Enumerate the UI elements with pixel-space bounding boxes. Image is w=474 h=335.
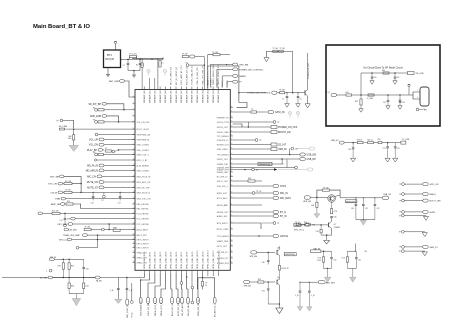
net flag USB_30: [233, 147, 315, 151]
svg-text:PC1_KEYIN3: PC1_KEYIN3: [137, 219, 150, 221]
svg-text:MIC_N1_INPUT_BT: MIC_N1_INPUT_BT: [176, 66, 178, 85]
BT module U/BT1 box: [104, 50, 121, 68]
svg-text:20: 20: [133, 202, 135, 204]
ground below BT1: [106, 68, 110, 77]
svg-text:MC_MM: MC_MM: [40, 278, 48, 280]
svg-text:R42: R42: [355, 101, 358, 103]
net flag PY_M row: [38, 211, 135, 215]
bottom routed flags group2: [171, 273, 200, 316]
net flag VOL_DN: [89, 143, 135, 146]
svg-text:49: 49: [231, 147, 233, 149]
svg-text:SPKL_LINE_OUT3: SPKL_LINE_OUT3: [160, 251, 162, 269]
svg-text:SYS_ON: SYS_ON: [48, 184, 57, 186]
svg-text:GPON_CTRL: GPON_CTRL: [217, 122, 230, 124]
svg-text:57: 57: [231, 179, 233, 181]
svg-text:RF(X)M: RF(X)M: [106, 58, 114, 61]
svg-text:SPK_ML: SPK_ML: [244, 286, 251, 288]
svg-text:R10: R10: [67, 201, 70, 203]
svg-text:PWR_SW_ON_IO: PWR_SW_ON_IO: [198, 299, 200, 316]
net flag TRMB_OFF_BMP: [63, 234, 135, 237]
capacitor C2: [128, 59, 144, 77]
svg-text:59: 59: [231, 191, 233, 193]
svg-text:TP: TP: [399, 232, 401, 234]
svg-text:CE_INT: CE_INT: [278, 145, 287, 147]
note flag SP_R: [325, 92, 346, 96]
svg-text:4: 4: [133, 114, 134, 116]
testpoint P2: [102, 192, 106, 202]
net flag BT_N: [233, 211, 286, 215]
svg-text:GPA0_OUT: GPA0_OUT: [137, 251, 148, 254]
wire SEN_LV gnd pair: [399, 250, 428, 256]
resistor R33: [68, 278, 74, 294]
testpoint TP7: [233, 222, 280, 229]
svg-text:SPKAMP_IN11: SPKAMP_IN11: [201, 89, 204, 103]
note power flag: [408, 84, 410, 95]
svg-text:69: 69: [231, 250, 233, 252]
svg-text:GWN: GWN: [430, 212, 436, 214]
svg-text:C55: C55: [364, 251, 367, 253]
svg-text:MD_MINUS: MD_MINUS: [86, 170, 99, 172]
svg-text:TP: TP: [399, 247, 401, 249]
wire Q5 collector rail: [334, 195, 382, 198]
svg-text:TP_0_R1: TP_0_R1: [129, 54, 137, 56]
net flag SD_LINE: [56, 119, 73, 130]
capacitor C1: [123, 59, 130, 71]
svg-text:Q6: Q6: [277, 277, 279, 279]
svg-text:TP_0M: TP_0M: [280, 48, 286, 50]
circle row y65 above IC: [186, 62, 206, 66]
svg-text:L1: L1: [162, 63, 164, 65]
svg-text:SPKL_LINE_OUT13: SPKL_LINE_OUT13: [213, 250, 215, 269]
svg-text:0_OHM: 0_OHM: [367, 98, 373, 100]
svg-text:GPD_EM: GPD_EM: [239, 65, 248, 67]
net flag HDR_EN: [303, 196, 328, 203]
svg-text:TP: TP: [399, 200, 401, 202]
svg-text:C20: C20: [348, 149, 351, 151]
svg-text:SPKL_LINE_OUT12: SPKL_LINE_OUT12: [208, 250, 210, 269]
svg-text:No Circuit/Close To SP Mode Ci: No Circuit/Close To SP Mode Circuit: [363, 67, 402, 70]
svg-text:ADC1_NTC: ADC1_NTC: [137, 234, 148, 237]
net flag CM_M: [51, 190, 135, 195]
svg-text:PWR_KEY: PWR_KEY: [208, 78, 210, 88]
svg-text:42: 42: [231, 116, 233, 118]
svg-text:MIC_ON: MIC_ON: [87, 176, 96, 178]
resistor R13 top: [208, 52, 230, 56]
resistor R4 pulldown: [68, 129, 75, 145]
svg-text:GND_CORE1: GND_CORE1: [137, 145, 150, 147]
svg-text:RIN_BT_AUX_1: RIN_BT_AUX_1: [187, 301, 190, 316]
note flag SW_GND: [408, 71, 425, 75]
svg-text:64: 64: [231, 221, 233, 223]
svg-text:KEY_MB: KEY_MB: [50, 176, 59, 178]
svg-text:50: 50: [231, 153, 233, 155]
resistor R8 row: [93, 152, 135, 156]
ground rail bottom-left: [69, 294, 84, 306]
note cap C50: [370, 73, 377, 84]
svg-text:C10: C10: [91, 202, 94, 204]
svg-text:MM2_GB: MM2_GB: [51, 204, 61, 206]
wire BT1 to cap rail: [121, 58, 164, 60]
svg-text:TP: TP: [205, 283, 207, 285]
net flag MIC_IN: [233, 191, 288, 195]
svg-text:51: 51: [231, 157, 233, 159]
wire row 208: [81, 208, 135, 210]
resistor R26 vertical: [278, 256, 289, 280]
svg-text:C53: C53: [402, 102, 405, 104]
svg-text:USB30_DET: USB30_DET: [217, 164, 229, 166]
svg-text:TP_0M: TP_0M: [65, 190, 71, 192]
testpoint TP6: [233, 139, 262, 142]
note wire rail main: [361, 94, 409, 96]
svg-text:UM03324S(I): UM03324S(I): [285, 254, 295, 256]
svg-text:BT1: BT1: [107, 53, 112, 57]
svg-text:R41: R41: [346, 92, 349, 94]
net flag GWN: [399, 210, 435, 214]
net flag BAT_DET cluster: [295, 281, 336, 311]
note connector J1: [409, 87, 429, 111]
svg-text:SPDPRSE_IN: SPDPRSE_IN: [137, 139, 150, 141]
net flag MD_MINUS: [86, 169, 135, 172]
svg-text:TP: TP: [399, 251, 401, 253]
wire bottom pin 1 route: [2, 273, 144, 318]
capacitor C12: [60, 213, 67, 227]
svg-text:LOUT_AMP_BT_CH1: LOUT_AMP_BT_CH1: [180, 65, 183, 85]
svg-text:RSET_EXT: RSET_EXT: [217, 193, 228, 195]
net flag USB_CN: [382, 194, 391, 199]
svg-text:R7: R7: [105, 148, 107, 150]
net flag KEY_MB: [50, 175, 81, 192]
svg-text:POWER_LB_LED: POWER_LB_LED: [308, 62, 310, 79]
svg-text:1: 1: [133, 95, 134, 97]
wire row 205: [233, 204, 262, 206]
resistor R21: [363, 140, 378, 144]
svg-text:TP_05: TP_05: [295, 222, 300, 224]
svg-text:SPKAMP_IN10: SPKAMP_IN10: [196, 88, 199, 103]
ferrite bead FB1: [378, 139, 389, 144]
svg-text:NC_PIN_57: NC_PIN_57: [217, 176, 229, 178]
note resistor R43 0_OHM: [367, 94, 388, 100]
svg-text:USB_DP: USB_DP: [307, 159, 317, 161]
svg-text:VCOM_XTAL_BT_01: VCOM_XTAL_BT_01: [191, 65, 194, 85]
svg-text:BSTEN_OUT: BSTEN_OUT: [217, 144, 230, 146]
svg-text:USB_5V: USB_5V: [331, 140, 339, 142]
net flag GMMS: [222, 75, 246, 78]
svg-text:HDR_EN: HDR_EN: [303, 201, 311, 203]
svg-text:CEINT_OUT: CEINT_OUT: [217, 159, 229, 161]
svg-text:SPKEN_RGT: SPKEN_RGT: [217, 263, 230, 265]
svg-text:PC_USB: PC_USB: [402, 139, 410, 141]
net flag PLAY_PAUSE: [87, 148, 135, 153]
svg-text:C22: C22: [397, 148, 400, 150]
svg-text:PC0_KEYIN2: PC0_KEYIN2: [137, 213, 150, 215]
svg-text:C31: C31: [365, 208, 368, 210]
svg-text:MIC_BIAS: MIC_BIAS: [280, 197, 291, 200]
wire row 231 gnd: [399, 230, 428, 236]
svg-text:C40: C40: [333, 259, 336, 261]
net flag SPK_ON: [399, 183, 439, 187]
svg-text:63: 63: [231, 214, 233, 216]
svg-text:MD_PLUS: MD_PLUS: [87, 166, 98, 168]
net flag NTC0: [233, 185, 287, 189]
svg-text:68: 68: [231, 244, 233, 246]
flag row y56 above IC: [182, 54, 204, 90]
svg-text:R33: R33: [71, 286, 74, 288]
wire last pin stub: [208, 273, 219, 276]
svg-text:SWDIO_DEBUG_TMS: SWDIO_DEBUG_TMS: [213, 64, 215, 85]
svg-text:BTIN_COMP: BTIN_COMP: [217, 229, 229, 231]
svg-text:GPIO_1_BT: GPIO_1_BT: [137, 160, 149, 162]
svg-text:USB_30: USB_30: [278, 149, 287, 151]
svg-text:Q7: Q7: [334, 224, 336, 226]
capacitor C20: [348, 143, 356, 162]
testpoint C circle: [46, 269, 52, 272]
svg-text:SW1_NC_PIN: SW1_NC_PIN: [137, 187, 150, 189]
resistor R6 row: [93, 119, 135, 123]
resistor row 181: [233, 178, 262, 182]
wire row BOOT: [67, 128, 135, 130]
svg-text:SPDPRSE_QN: SPDPRSE_QN: [137, 134, 151, 136]
svg-text:54: 54: [231, 168, 233, 170]
svg-text:GND_BLINE_01: GND_BLINE_01: [141, 300, 143, 316]
net flag BT_ANT bottom: [203, 273, 217, 317]
svg-text:MUTE_ON: MUTE_ON: [87, 182, 99, 184]
svg-text:SPKAMP_IN3: SPKAMP_IN3: [159, 90, 162, 103]
svg-text:PB0_KEYIN0: PB0_KEYIN0: [137, 204, 150, 206]
net flag VOL_UP: [89, 138, 135, 141]
svg-text:UM03324S(I): UM03324S(I): [259, 164, 271, 166]
svg-text:R6: R6: [93, 119, 95, 121]
svg-text:VOL_DN_KEY: VOL_DN_KEY: [137, 122, 151, 124]
net flag P3: [67, 217, 135, 220]
resistor R1 on BT rail: [129, 54, 137, 60]
net flag BAT_IN cluster: [311, 247, 337, 282]
svg-text:TP: TP: [399, 194, 401, 196]
svg-text:ADC0_BATT: ADC0_BATT: [137, 228, 149, 231]
svg-text:BR(U): BR(U): [430, 194, 436, 196]
svg-text:R11_0M: R11_0M: [52, 211, 59, 213]
bottom testpoint TP9: [191, 273, 194, 304]
svg-text:LOUT_BT_PA_1: LOUT_BT_PA_1: [147, 300, 150, 316]
svg-text:CM_M: CM_M: [51, 192, 58, 194]
svg-text:R21 22: R21 22: [367, 140, 373, 142]
transistor Q7 HDR cluster: [294, 215, 341, 244]
svg-text:2: 2: [417, 97, 418, 99]
net flag POWER_LED_CONTROL top: [217, 68, 264, 71]
svg-text:P2: P2: [102, 200, 104, 202]
net flag BOOT_UM: [399, 199, 441, 203]
resistor R26b emitter: [331, 202, 338, 214]
svg-text:31: 31: [133, 256, 135, 258]
capacitor C44: [83, 278, 89, 294]
net flag SPK_EN row: [250, 246, 297, 258]
svg-text:SW1_TULO_IN: SW1_TULO_IN: [137, 199, 151, 201]
svg-text:BOUT_BT_RT_1: BOUT_BT_RT_1: [178, 300, 180, 316]
svg-text:GND_USB1: GND_USB1: [217, 149, 229, 151]
svg-text:XTAL_OUT_26M_CK: XTAL_OUT_26M_CK: [201, 65, 204, 85]
net flag MD_PLUS: [87, 164, 135, 167]
svg-text:SEN_LV: SEN_LV: [430, 247, 439, 249]
riser net labels: [208, 78, 229, 88]
svg-text:SPKAMP_IN0: SPKAMP_IN0: [143, 90, 146, 103]
svg-text:SPKL_LINE_OUT9: SPKL_LINE_OUT9: [192, 251, 194, 269]
svg-text:TP: TP: [399, 215, 401, 217]
svg-text:C5: C5: [282, 99, 284, 101]
svg-text:SW: SW: [424, 110, 427, 112]
note resistor R41: [346, 92, 362, 96]
wire GWN gnd pair: [399, 214, 429, 220]
svg-text:40: 40: [231, 106, 233, 108]
no-connect gray symbols: [288, 111, 299, 117]
svg-text:C36: C36: [262, 262, 265, 264]
svg-text:MICBS_OUT: MICBS_OUT: [217, 212, 229, 214]
svg-text:SPKL_LINE_OUT7: SPKL_LINE_OUT7: [181, 251, 183, 269]
svg-text:MA2: MA2: [113, 226, 117, 229]
capacitor C21: [383, 143, 391, 162]
note circle flag SW: [416, 108, 427, 111]
net flag GPD_1: [59, 235, 135, 241]
svg-text:Q8: Q8: [277, 248, 279, 250]
svg-text:SPKL_LINE_OUT1: SPKL_LINE_OUT1: [149, 251, 151, 269]
svg-text:AOUT_BT_LF_1: AOUT_BT_LF_1: [171, 300, 174, 316]
svg-text:GPA1_OUT: GPA1_OUT: [137, 256, 148, 259]
svg-text:GMMS: GMMS: [239, 76, 246, 78]
flag ANT_GND: [109, 80, 135, 97]
svg-text:POWER_ON_OFF: POWER_ON_OFF: [278, 127, 298, 129]
net flag MUTE_ON: [87, 181, 135, 184]
svg-text:GMMS_1: GMMS_1: [222, 79, 224, 88]
svg-text:TP1_DEBUG: TP1_DEBUG: [217, 136, 229, 138]
svg-text:C2: C2: [142, 65, 144, 67]
svg-text:SW1_AUX_ON: SW1_AUX_ON: [137, 181, 151, 184]
bottom testpoint TP8: [180, 282, 183, 285]
net flag MM2_GB: [51, 201, 81, 208]
resistor R32: [68, 259, 74, 277]
wire rail riser: [162, 57, 164, 59]
svg-text:POWER_LED_CONTROL: POWER_LED_CONTROL: [239, 69, 264, 71]
svg-text:R24: R24: [304, 222, 307, 224]
svg-text:TP: TP: [186, 62, 188, 64]
svg-text:C52: C52: [383, 102, 386, 104]
wire pin to dot left: [198, 278, 203, 289]
testpoint row 247: [76, 240, 97, 250]
mid rail row 277: [40, 276, 103, 282]
svg-text:GPIO7_OUT: GPIO7_OUT: [217, 181, 229, 183]
svg-text:AMP_ENB: AMP_ENB: [90, 115, 101, 118]
svg-text:NTC0: NTC0: [280, 186, 287, 188]
label UM03324S bank: [345, 200, 357, 204]
cluster C55: [342, 244, 368, 283]
resistor R23 below base: [311, 198, 320, 219]
svg-text:SPKAMP_IN7: SPKAMP_IN7: [180, 90, 183, 103]
svg-text:TP: TP: [399, 184, 401, 186]
svg-text:C32: C32: [377, 208, 380, 210]
svg-text:MIC_P1_INPUT_BT: MIC_P1_INPUT_BT: [171, 66, 173, 85]
svg-text:R31: R31: [58, 265, 61, 267]
svg-text:VDD_CORE1: VDD_CORE1: [137, 150, 150, 152]
transistor Q5: [328, 195, 336, 203]
svg-text:GPIO_06: GPIO_06: [275, 112, 285, 114]
svg-text:SW1_PLUS_I2: SW1_PLUS_I2: [137, 192, 151, 194]
net flag AMP_ENB: [90, 115, 119, 123]
net flag GPIO_06: [233, 109, 285, 114]
svg-text:C43: C43: [85, 269, 88, 271]
svg-text:SPKAMP_IN5: SPKAMP_IN5: [170, 90, 173, 103]
net flag MIC_ON: [87, 175, 135, 178]
svg-text:XTAL_IN_26M_CLK: XTAL_IN_26M_CLK: [196, 66, 199, 85]
svg-text:TP_0M: TP_0M: [182, 54, 188, 56]
svg-text:HDR_ON_Q: HDR_ON_Q: [294, 230, 305, 232]
svg-text:PWRKEY_IN: PWRKEY_IN: [217, 118, 229, 120]
svg-text:C34: C34: [316, 231, 319, 233]
svg-text:TP3_DEBUG: TP3_DEBUG: [217, 236, 229, 238]
svg-text:SP_R: SP_R: [325, 92, 331, 94]
svg-text:SPKAMP_IN14: SPKAMP_IN14: [217, 88, 220, 103]
svg-text:FB1: FB1: [378, 139, 381, 141]
svg-text:53: 53: [231, 166, 233, 168]
main IC left pins: [133, 95, 151, 264]
svg-text:R8: R8: [93, 152, 95, 154]
net flag BT_IN: [233, 215, 287, 219]
svg-text:SPKAMP_IN1: SPKAMP_IN1: [148, 90, 151, 103]
svg-text:PB1_KEYIN1: PB1_KEYIN1: [137, 209, 150, 211]
power LED transistor circuit: [239, 53, 310, 108]
svg-text:SPKAMP_IN13: SPKAMP_IN13: [212, 88, 215, 103]
junction on rail: [151, 59, 152, 60]
wire BT rail to pin column: [132, 58, 163, 89]
net flag USB_DM: [233, 149, 316, 157]
svg-text:SPKL_LINE_OUT11: SPKL_LINE_OUT11: [202, 250, 204, 269]
svg-text:KEY_MB2: KEY_MB2: [58, 224, 69, 226]
top resistor R12 rail: [264, 48, 293, 93]
capacitor C36 base pulldown: [262, 252, 270, 264]
no-connect symbol NC2: [163, 69, 166, 75]
svg-text:BOOT_UM: BOOT_UM: [430, 201, 441, 203]
svg-text:UM033_NET: UM033_NET: [217, 172, 229, 174]
svg-text:SPK_EN: SPK_EN: [250, 256, 258, 258]
svg-text:PA_BN: PA_BN: [96, 280, 102, 283]
svg-text:43: 43: [231, 120, 233, 122]
capacitor C11: [118, 192, 122, 205]
svg-text:GND_CORE2: GND_CORE2: [137, 170, 150, 172]
svg-text:C35: C35: [333, 217, 336, 219]
svg-text:C30: C30: [351, 208, 354, 210]
net flag TP4: [227, 80, 242, 83]
note vertical branch x361: [355, 73, 363, 112]
svg-text:71: 71: [231, 261, 233, 263]
svg-text:GPIO6_OUT: GPIO6_OUT: [217, 127, 229, 129]
resistor R20: [357, 140, 363, 144]
svg-text:C6: C6: [300, 99, 302, 101]
svg-text:BOOT_IN_BT: BOOT_IN_BT: [137, 129, 150, 131]
note cap C53 polarized: [398, 95, 405, 109]
net flag MUTE_NT: [87, 186, 135, 189]
svg-text:SPKR_OUT_M_1: SPKR_OUT_M_1: [161, 299, 163, 316]
capacitor bank C30-C32: [351, 197, 380, 225]
svg-text:R32: R32: [71, 265, 74, 267]
svg-text:45: 45: [231, 130, 233, 132]
power row: [94, 159, 135, 161]
svg-text:TP_0M: TP_0M: [85, 227, 91, 229]
svg-text:KEY1_INPUT: KEY1_INPUT: [137, 243, 150, 245]
svg-text:BAT_DET: BAT_DET: [326, 281, 336, 284]
svg-text:R26 4.7K: R26 4.7K: [282, 268, 290, 270]
svg-text:47: 47: [231, 138, 233, 140]
note cap C51: [393, 73, 400, 84]
label UM03324S: [233, 159, 284, 166]
svg-text:TP: TP: [399, 212, 401, 214]
svg-text:58: 58: [231, 184, 233, 186]
net flag BOOST_EN: [233, 131, 291, 135]
